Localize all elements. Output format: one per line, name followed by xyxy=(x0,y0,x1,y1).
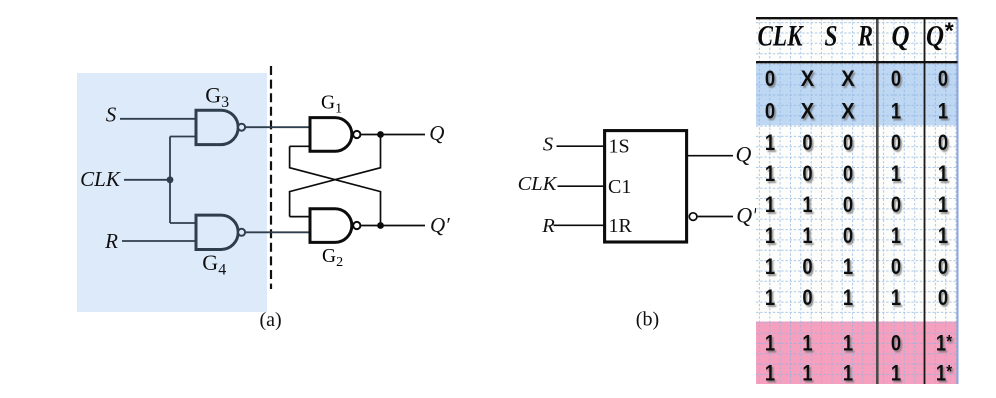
svg-text:CLK: CLK xyxy=(80,167,121,191)
svg-text:G1: G1 xyxy=(321,93,342,117)
svg-text:1: 1 xyxy=(891,100,901,124)
svg-text:1: 1 xyxy=(765,163,775,187)
svg-text:0: 0 xyxy=(891,132,901,156)
svg-text:1: 1 xyxy=(802,225,812,249)
svg-text:0: 0 xyxy=(765,100,775,124)
svg-text:1: 1 xyxy=(765,332,775,356)
svg-text:S: S xyxy=(825,20,838,52)
svg-text:1: 1 xyxy=(938,100,948,124)
svg-text:X: X xyxy=(801,67,814,91)
svg-text:1: 1 xyxy=(802,362,812,386)
svg-text:C1: C1 xyxy=(608,176,631,198)
svg-text:1: 1 xyxy=(843,332,853,356)
svg-text:CLK: CLK xyxy=(518,173,558,195)
svg-text:Q′: Q′ xyxy=(430,213,450,237)
svg-text:1: 1 xyxy=(765,287,775,311)
svg-text:0: 0 xyxy=(891,68,901,92)
svg-text:1: 1 xyxy=(843,362,853,386)
svg-text:1R: 1R xyxy=(609,215,633,237)
svg-text:1: 1 xyxy=(891,362,901,386)
svg-text:0: 0 xyxy=(891,332,901,356)
svg-text:S: S xyxy=(543,134,553,156)
svg-text:Q′: Q′ xyxy=(736,203,758,228)
svg-text:0: 0 xyxy=(938,68,948,92)
svg-text:G2: G2 xyxy=(322,246,343,270)
svg-text:0: 0 xyxy=(802,132,812,156)
svg-text:1: 1 xyxy=(802,194,812,218)
svg-text:0: 0 xyxy=(891,194,901,218)
svg-text:X: X xyxy=(841,67,854,91)
svg-text:(b): (b) xyxy=(636,309,659,331)
svg-text:CLK: CLK xyxy=(758,20,805,52)
svg-text:0: 0 xyxy=(843,194,853,218)
svg-text:0: 0 xyxy=(938,132,948,156)
svg-text:0: 0 xyxy=(802,256,812,280)
svg-text:Q: Q xyxy=(892,20,910,52)
svg-text:0: 0 xyxy=(938,287,948,311)
svg-text:0: 0 xyxy=(843,225,853,249)
svg-text:Q: Q xyxy=(736,141,752,166)
svg-text:Q: Q xyxy=(429,121,444,145)
svg-text:0: 0 xyxy=(843,132,853,156)
svg-text:1: 1 xyxy=(802,332,812,356)
svg-text:1: 1 xyxy=(843,256,853,280)
svg-text:1: 1 xyxy=(765,132,775,156)
svg-text:1: 1 xyxy=(938,194,948,218)
svg-text:R: R xyxy=(541,215,555,237)
svg-text:1: 1 xyxy=(891,225,901,249)
svg-text:1: 1 xyxy=(891,287,901,311)
svg-text:1: 1 xyxy=(938,163,948,187)
svg-text:0: 0 xyxy=(802,163,812,187)
svg-text:0: 0 xyxy=(802,287,812,311)
svg-text:S: S xyxy=(106,103,117,127)
svg-text:X: X xyxy=(801,100,814,124)
svg-text:(a): (a) xyxy=(260,309,282,331)
svg-text:0: 0 xyxy=(891,256,901,280)
svg-text:1: 1 xyxy=(765,256,775,280)
svg-text:0: 0 xyxy=(765,68,775,92)
svg-text:1: 1 xyxy=(765,194,775,218)
svg-text:1S: 1S xyxy=(609,136,630,158)
svg-text:*: * xyxy=(945,18,954,44)
svg-text:R: R xyxy=(857,20,873,52)
svg-text:1: 1 xyxy=(765,225,775,249)
svg-text:0: 0 xyxy=(843,163,853,187)
svg-text:0: 0 xyxy=(938,256,948,280)
svg-text:Q: Q xyxy=(926,20,944,52)
svg-text:X: X xyxy=(841,100,854,124)
svg-text:1: 1 xyxy=(891,163,901,187)
svg-text:1: 1 xyxy=(843,287,853,311)
svg-text:R: R xyxy=(104,229,118,253)
svg-text:1: 1 xyxy=(765,362,775,386)
svg-text:1: 1 xyxy=(938,225,948,249)
